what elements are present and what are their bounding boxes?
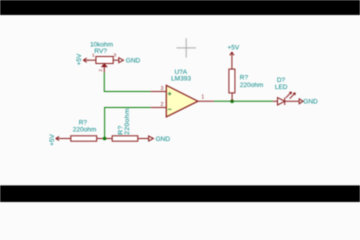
svg-text:+5V: +5V (228, 45, 240, 52)
svg-text:R?: R? (240, 74, 249, 81)
junction node output (230, 100, 234, 104)
svg-text:LED: LED (275, 84, 288, 91)
resistor R? vertical (229, 57, 235, 101)
svg-text:LM393: LM393 (171, 76, 191, 83)
resistor R? horizontal right (105, 136, 149, 141)
wire pot wiper to op-amp pin 3 (104, 73, 150, 92)
svg-text:RV?: RV? (94, 48, 107, 55)
svg-text:220ohm: 220ohm (124, 108, 131, 135)
power flag +5V bottom left (49, 133, 61, 145)
svg-text:3: 3 (113, 53, 116, 59)
power flag GND at LED (299, 99, 318, 106)
svg-text:220ohm: 220ohm (240, 82, 263, 89)
svg-text:1: 1 (201, 95, 204, 101)
svg-text:220ohm: 220ohm (73, 127, 97, 134)
svg-text:GND: GND (126, 58, 141, 65)
power flag +5V at pot left (76, 53, 88, 65)
power flag GND at pot right (119, 58, 141, 65)
potentiometer RV? (88, 57, 119, 73)
op-amp U?A LM393 (151, 85, 214, 117)
svg-text:2: 2 (98, 69, 104, 72)
LED D? (273, 92, 299, 105)
wire junction to op-amp pin 2 (105, 108, 151, 139)
resistor R? horizontal left (61, 136, 105, 141)
power flag +5V top right (228, 45, 240, 58)
wire op-amp output to LED (214, 100, 273, 102)
svg-text:GND: GND (303, 99, 318, 106)
svg-text:GND: GND (156, 136, 171, 143)
power flag GND bottom (149, 136, 171, 143)
svg-text:2: 2 (161, 102, 164, 108)
junction node between divider resistors (103, 137, 107, 141)
svg-text:+5V: +5V (76, 53, 83, 65)
svg-text:R?: R? (79, 120, 88, 127)
svg-text:3: 3 (161, 86, 164, 92)
svg-text:+5V: +5V (49, 133, 56, 145)
